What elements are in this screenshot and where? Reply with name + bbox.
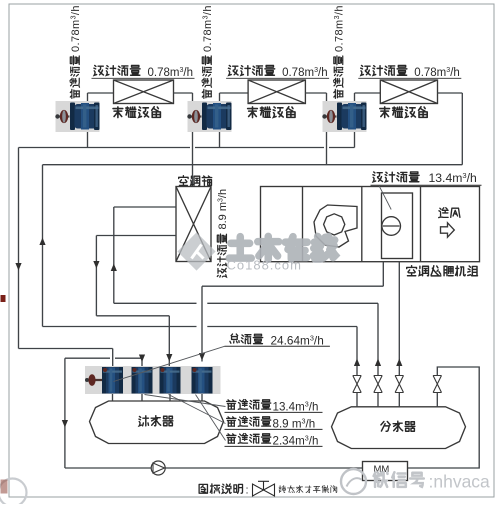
collector balance valve 3 (blue) bbox=[160, 367, 181, 394]
leader bbox=[145, 395, 226, 407]
label 空调箱 bbox=[179, 176, 212, 186]
balance valve (blue) group 1 bbox=[55, 101, 99, 132]
fan icon bbox=[314, 205, 357, 247]
wire: 空调箱 supply riser bbox=[113, 207, 115, 303]
leader bbox=[196, 395, 226, 441]
coil inner box bbox=[382, 193, 413, 259]
valve1 handle bbox=[86, 379, 104, 381]
label 设计流量 0.78 m3/h group 2 bbox=[229, 65, 275, 75]
wire: riser-to-coil stub group 3 bbox=[355, 92, 381, 94]
label 设计流量 0.78 m3/h group 3 bbox=[361, 65, 407, 75]
device box MM bbox=[363, 462, 408, 481]
legend text 静态水力平衡阀 bbox=[279, 486, 337, 493]
wire: supply riser group 3 bbox=[354, 93, 356, 148]
svg-text:0.78m3/h: 0.78m3/h bbox=[202, 5, 214, 52]
coil circle-minus bbox=[382, 217, 401, 236]
svg-text::nhvaca: :nhvaca bbox=[429, 472, 491, 492]
valve (bowtie) x=377.5 bbox=[374, 376, 382, 393]
terminal unit box (末端设备) 3 bbox=[380, 80, 437, 104]
wire: AHU supply bbox=[398, 262, 400, 376]
wire: supply header B (y=164.2) bbox=[43, 164, 463, 166]
leader bbox=[169, 395, 226, 424]
collector balance valve 4 (blue) bbox=[192, 367, 213, 394]
wire: fancoil return to valve1 bbox=[19, 349, 113, 367]
vertical label 设计流量 8.9 m3/h bbox=[217, 189, 229, 277]
legend valve symbol bbox=[253, 484, 275, 496]
wire: left supply main x=42 bbox=[42, 165, 44, 327]
label 集水器 bbox=[139, 416, 173, 426]
watermark bottom-right bbox=[341, 469, 366, 494]
wire: AHU return bbox=[202, 262, 383, 362]
valve (bowtie) x=398.8 bbox=[395, 376, 403, 393]
svg-text:0.78m3/h: 0.78m3/h bbox=[148, 66, 194, 79]
wire: 空调箱 supply run H7 bbox=[114, 302, 378, 304]
valve (bowtie) x=356.5 bbox=[353, 376, 361, 393]
label 管道流量 8.9m3/h bbox=[227, 417, 271, 427]
pump bbox=[151, 461, 165, 475]
svg-text:0.78m3/h: 0.78m3/h bbox=[282, 66, 328, 79]
wire: return header A (y=147) bbox=[19, 147, 355, 149]
watermark center bbox=[177, 232, 215, 270]
valve (bowtie) x=436.8 bbox=[433, 376, 441, 393]
wire: pump suction from valve2 bbox=[65, 358, 142, 468]
wire: riser-to-coil stub group 2 bbox=[220, 92, 249, 94]
svg-text:Co188.com: Co188.com bbox=[227, 258, 302, 273]
legend 图标说明 bbox=[199, 484, 242, 493]
label 管道流量 2.34m3/h bbox=[227, 434, 271, 444]
node: header A left corner / left return main bbox=[18, 148, 20, 349]
vertical label 管道流量 0.78m3/h group 1 bbox=[70, 5, 82, 98]
wire: return drop group 2 bbox=[326, 93, 328, 165]
wire: 空调箱 return stub bbox=[96, 235, 176, 237]
wire: supply riser group 1 bbox=[87, 93, 89, 148]
wire: bypass/main valve4 branch bbox=[408, 367, 480, 468]
wire: supply riser group 2 bbox=[219, 93, 221, 148]
AHU unit box 空调处理机组 bbox=[261, 187, 480, 262]
wire: 空调箱 return run bbox=[96, 315, 169, 317]
svg-text:0.78m3/h: 0.78m3/h bbox=[334, 5, 346, 52]
balance valve (blue) group 2 bbox=[187, 101, 231, 132]
wire: return drop group 1 bbox=[192, 93, 194, 187]
label 总流量 24.64m3/h bbox=[230, 334, 263, 344]
svg-text:13.4m3/h: 13.4m3/h bbox=[273, 400, 319, 414]
label 送风 bbox=[439, 208, 460, 218]
svg-text::: : bbox=[246, 485, 249, 497]
terminal unit box (末端设备) 1 bbox=[114, 80, 174, 104]
wire: return drop group 3 bbox=[461, 93, 463, 165]
svg-text:0.78m3/h: 0.78m3/h bbox=[70, 5, 82, 52]
manifold tank 分水器 bbox=[332, 407, 466, 449]
svg-text:8.9 m3/h: 8.9 m3/h bbox=[217, 189, 229, 230]
label 末端设备 group 3 bbox=[380, 107, 427, 118]
label 设计流量 13.4m3/h bbox=[373, 172, 419, 182]
wire: 空调箱 supply stub bbox=[114, 206, 176, 208]
wires: valve row to collector bbox=[112, 394, 114, 401]
svg-text:2.34m3/h: 2.34m3/h bbox=[273, 434, 319, 448]
watermark bottom-left bbox=[0, 479, 27, 507]
vertical label 管道流量 0.78m3/h group 2 bbox=[202, 5, 214, 98]
label 管道流量 13.4m3/h bbox=[227, 400, 271, 410]
wire: coil-to-drop stub group 2 bbox=[305, 92, 326, 94]
label 设计流量 0.78 m3/h group 1 bbox=[94, 65, 140, 75]
wire: riser-to-coil stub group 1 bbox=[88, 92, 114, 94]
collector tank 集水器 bbox=[90, 401, 224, 444]
balance valve (blue) group 3 bbox=[322, 101, 366, 132]
collector balance valve 2 (blue) bbox=[132, 367, 153, 394]
terminal unit box (末端设备) 2 bbox=[248, 80, 305, 104]
collector balance valve 1 (blue) bbox=[102, 367, 123, 394]
svg-text:0.78m3/h: 0.78m3/h bbox=[414, 66, 460, 79]
svg-text:13.4m3/h: 13.4m3/h bbox=[429, 171, 477, 185]
red edge marks bbox=[1, 295, 6, 302]
wire: pump main line bbox=[65, 467, 363, 469]
leader to coil bbox=[379, 186, 391, 210]
AHU-box 空调箱 with X bbox=[176, 187, 211, 262]
wire: fancoil supply run H6 bbox=[43, 326, 358, 328]
label 末端设备 group 2 bbox=[248, 107, 295, 118]
leader 总流量 bbox=[114, 346, 225, 381]
vertical label 管道流量 0.78m3/h group 3 bbox=[334, 5, 346, 98]
wire: coil-to-drop stub group 1 bbox=[174, 92, 193, 94]
svg-text:24.64m3/h: 24.64m3/h bbox=[271, 334, 324, 348]
svg-text:8.9 m3/h: 8.9 m3/h bbox=[273, 417, 316, 431]
collector valve backdrop bbox=[85, 366, 221, 394]
supply-air block arrow bbox=[441, 223, 455, 237]
label 空调处理机组 bbox=[407, 266, 478, 276]
label 末端设备 group 1 bbox=[113, 107, 160, 118]
wire: coil-to-drop stub group 3 bbox=[438, 92, 463, 94]
label 分水器 bbox=[381, 421, 415, 431]
wire: 空调箱 return drop bbox=[95, 236, 97, 316]
